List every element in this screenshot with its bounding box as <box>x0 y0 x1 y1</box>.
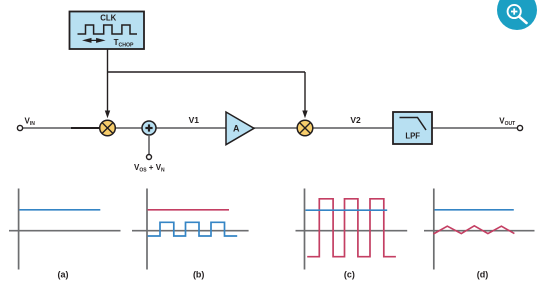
svg-text:CLK: CLK <box>100 14 116 23</box>
svg-text:(c): (c) <box>344 270 355 280</box>
svg-text:VOS + VN: VOS + VN <box>134 163 165 174</box>
svg-text:LPF: LPF <box>405 131 420 140</box>
svg-text:(b): (b) <box>193 270 205 280</box>
svg-text:(a): (a) <box>58 270 69 280</box>
svg-text:(d): (d) <box>477 270 489 280</box>
svg-text:A: A <box>233 123 240 133</box>
svg-text:V1: V1 <box>189 115 200 125</box>
svg-text:V2: V2 <box>350 115 361 125</box>
